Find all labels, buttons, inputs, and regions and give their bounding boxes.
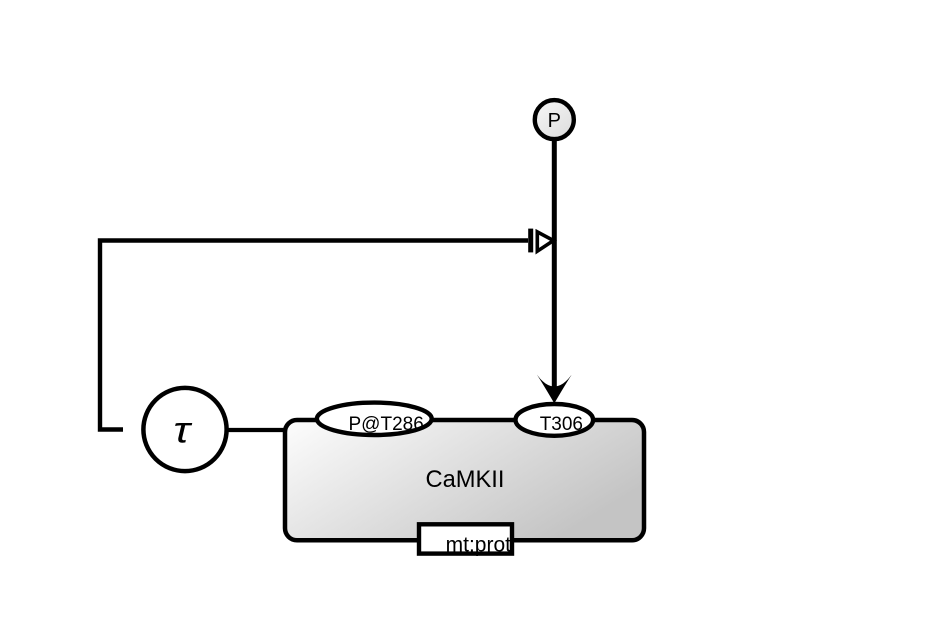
wire: vertical edge from P down to T306 (552, 140, 557, 392)
svg-text:CaMKII: CaMKII (426, 467, 505, 493)
svg-text:mt:prot: mt:prot (446, 534, 512, 557)
node tau circle (143, 388, 226, 471)
wire: feedback path from tau region up and right to stimulation arrow (100, 241, 528, 430)
state ellipse P@T286 (317, 403, 432, 435)
svg-text:P@T286: P@T286 (349, 414, 424, 435)
necessary stimulation open triangle (537, 232, 553, 251)
state ellipse T306 (516, 404, 594, 436)
svg-text:P: P (548, 110, 561, 132)
wire: tau to CaMKII (226, 428, 288, 432)
node P circle (535, 100, 574, 139)
filled arrowhead into T306 (537, 375, 572, 404)
svg-text:T306: T306 (540, 414, 583, 435)
necessary stimulation bar (528, 229, 533, 253)
unit of information mt:prot (419, 524, 512, 553)
node CaMKII box (285, 420, 644, 540)
